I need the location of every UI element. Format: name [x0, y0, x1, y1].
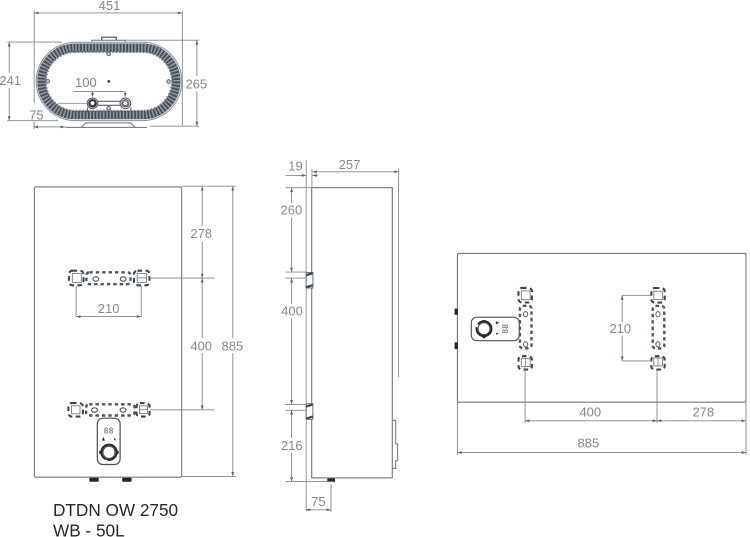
svg-text:257: 257: [339, 157, 361, 172]
svg-text:19: 19: [288, 159, 302, 174]
svg-text:88: 88: [104, 426, 114, 435]
svg-text:100: 100: [75, 75, 97, 90]
svg-text:278: 278: [692, 405, 714, 420]
svg-text:451: 451: [99, 0, 121, 13]
svg-text:WB - 50L: WB - 50L: [53, 521, 125, 537]
svg-text:88: 88: [501, 324, 510, 334]
svg-text:400: 400: [281, 304, 303, 319]
svg-text:400: 400: [579, 405, 601, 420]
svg-text:210: 210: [98, 301, 120, 316]
svg-text:216: 216: [281, 438, 303, 453]
svg-text:210: 210: [609, 321, 631, 336]
svg-text:241: 241: [0, 73, 21, 88]
svg-text:75: 75: [311, 494, 325, 509]
svg-text:885: 885: [578, 436, 600, 451]
svg-text:75: 75: [29, 107, 43, 122]
svg-text:278: 278: [190, 226, 212, 241]
svg-text:885: 885: [222, 338, 244, 353]
svg-text:DTDN OW 2750: DTDN OW 2750: [53, 500, 178, 520]
svg-text:265: 265: [185, 76, 207, 91]
svg-text:400: 400: [190, 338, 212, 353]
svg-text:260: 260: [281, 203, 303, 218]
